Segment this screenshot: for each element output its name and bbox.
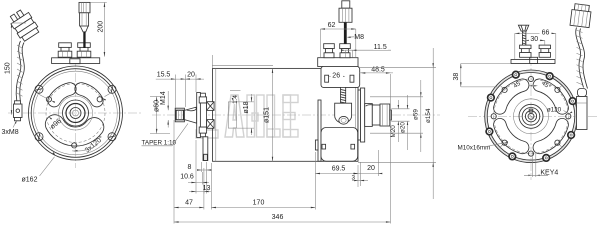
svg-text:20: 20	[187, 72, 195, 79]
svg-text:3xM8: 3xM8	[2, 129, 19, 136]
svg-text:13: 13	[203, 185, 211, 192]
svg-text:62: 62	[328, 22, 336, 29]
svg-text:69.5: 69.5	[332, 166, 346, 173]
svg-text:15.5: 15.5	[157, 72, 171, 79]
svg-text:10.6: 10.6	[180, 174, 194, 181]
svg-text:11.5: 11.5	[374, 44, 387, 51]
svg-text:346: 346	[272, 214, 284, 221]
svg-text:ø162: ø162	[22, 177, 38, 184]
svg-text:30: 30	[530, 36, 538, 43]
svg-text:TAPER 1:10: TAPER 1:10	[142, 140, 177, 147]
svg-text:8: 8	[188, 164, 192, 171]
svg-text:200: 200	[98, 21, 105, 33]
svg-text:M8: M8	[354, 34, 364, 41]
svg-text:KEY4: KEY4	[540, 169, 558, 176]
svg-text:ø59: ø59	[413, 109, 420, 120]
svg-text:66: 66	[542, 29, 550, 36]
svg-text:ø154: ø154	[425, 108, 432, 123]
svg-text:3: 3	[351, 175, 355, 182]
svg-text:M20: M20	[390, 125, 397, 138]
svg-text:ø20: ø20	[399, 122, 406, 133]
svg-text:ø18: ø18	[243, 101, 250, 113]
svg-text:20: 20	[367, 165, 375, 172]
svg-text:38: 38	[453, 73, 460, 81]
svg-text:26: 26	[332, 73, 340, 80]
svg-text:M14: M14	[160, 91, 167, 105]
svg-text:ø60: ø60	[154, 100, 161, 112]
svg-text:150: 150	[4, 62, 11, 74]
svg-text:47: 47	[185, 200, 193, 207]
svg-text:170: 170	[253, 200, 265, 207]
svg-text:M10x16mm: M10x16mm	[458, 145, 491, 152]
svg-text:ø120: ø120	[547, 107, 562, 114]
svg-text:ø151: ø151	[263, 107, 270, 123]
